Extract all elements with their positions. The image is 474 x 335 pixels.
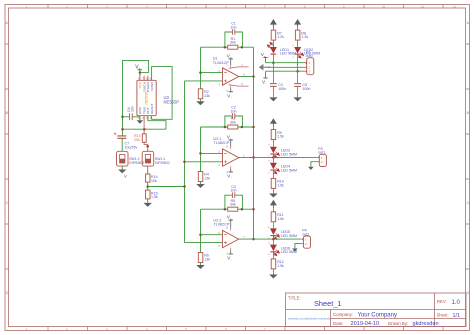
ground arrow below R2 — [196, 101, 204, 105]
ground arrow P3 — [308, 167, 314, 170]
SW1.1 label — [155, 157, 170, 165]
switch SW1.2 — [117, 151, 129, 166]
switch SW1.1 — [142, 151, 154, 166]
net flag Vs (555 supply) — [135, 65, 142, 77]
svg-text:1.2k: 1.2k — [301, 35, 308, 39]
svg-text:out1: out1 — [318, 151, 325, 155]
LED2 — [294, 47, 304, 58]
U1 offset pins — [229, 67, 249, 86]
U2.2 label — [213, 218, 230, 226]
555 pin numbers top — [138, 77, 152, 81]
C3 label — [231, 185, 237, 193]
555 pin numbers bottom — [138, 116, 152, 120]
wire R12 to ground — [272, 269, 274, 275]
svg-text:CONT: CONT — [150, 82, 154, 91]
wire R6 to ground — [200, 263, 202, 266]
frame tick marks bottom — [48, 327, 443, 331]
wire LED4 to R10 — [272, 170, 274, 178]
TITLE BLOCK — [286, 293, 467, 327]
junction U2.2 output — [252, 238, 255, 241]
svg-text:easyeda.com/gkdresden easyeda: easyeda.com/gkdresden easyeda — [288, 317, 330, 321]
svg-text:30k: 30k — [230, 203, 236, 207]
resistor R15 — [146, 190, 151, 199]
wire1 to P2 pin1 — [266, 62, 305, 64]
ground arrow 555 GND pin — [137, 118, 144, 124]
LED4 label — [281, 165, 297, 173]
C5 label — [302, 83, 310, 91]
U1 V+ stub — [230, 65, 232, 68]
svg-text:NE555P: NE555P — [145, 91, 149, 104]
op-amp U1 triangle — [223, 68, 239, 85]
svg-text:gkdresden: gkdresden — [413, 321, 439, 327]
wire divider to opamp bias rail — [148, 186, 185, 188]
svg-text:LED 5MM: LED 5MM — [281, 152, 297, 156]
R3 label — [230, 117, 236, 125]
R2 label — [204, 90, 210, 98]
wire to R11 — [272, 208, 274, 212]
R11 label — [277, 213, 284, 221]
wire SW1.1 to R14 — [147, 166, 149, 174]
title block row line 2 — [331, 318, 467, 320]
wire R15 to ground — [147, 199, 149, 203]
U2.1 label — [213, 137, 230, 145]
junction C1 left — [224, 46, 227, 49]
wire to R9 — [272, 127, 274, 130]
wire R2 to ground — [200, 99, 202, 101]
ground arrow P4 — [292, 249, 298, 252]
capacitor C5 — [294, 84, 301, 87]
svg-text:LED 5MM: LED 5MM — [281, 168, 297, 172]
wire LED5 to junction — [272, 236, 274, 240]
R5 label — [230, 199, 236, 207]
wire LED3 to junction — [272, 154, 274, 157]
junction C1 right — [241, 46, 244, 49]
wire2 to P2 pin2 — [268, 66, 305, 68]
R9 label — [277, 131, 284, 139]
R10 label — [277, 180, 284, 188]
U1 pin numbers — [218, 63, 245, 93]
svg-text:30k: 30k — [230, 121, 236, 125]
junction U2.1 feedback — [252, 126, 255, 129]
wire C7 to SW1.2 — [121, 138, 123, 151]
svg-text:TL082CP: TL082CP — [213, 141, 230, 145]
svg-text:TITLE:: TITLE: — [288, 296, 301, 301]
capacitor C3 — [232, 192, 234, 198]
wire R9 to LED3 — [272, 140, 274, 147]
wire3 to P2 pin3 — [266, 70, 305, 72]
LED pin number marks — [268, 44, 294, 256]
svg-text:-: - — [231, 95, 232, 99]
LED3 label — [281, 149, 297, 157]
junction chain A — [272, 61, 275, 64]
svg-text:100n: 100n — [278, 87, 286, 91]
svg-text:1.5k: 1.5k — [151, 195, 158, 199]
wire P4 pin2 to ground — [295, 243, 301, 248]
wire U2.2 pin3 — [185, 242, 225, 244]
junction C3 left — [224, 208, 227, 211]
U2.2 V- stub — [230, 248, 232, 251]
ground arrow bottom chain — [269, 275, 277, 279]
U3 reference label — [164, 95, 180, 105]
ground arrow below R15 — [144, 203, 152, 207]
C1 label — [231, 22, 237, 30]
svg-text:10n: 10n — [131, 106, 135, 112]
svg-text:B: B — [6, 111, 8, 115]
wire U1 feedback top — [201, 46, 254, 48]
C4 label — [278, 83, 286, 91]
svg-text:100n: 100n — [302, 87, 310, 91]
resistor R5 — [228, 207, 238, 211]
svg-text:2019-04-10: 2019-04-10 — [351, 321, 380, 327]
svg-text:Sheet_1: Sheet_1 — [314, 299, 342, 308]
ground arrow below SW1.2 — [118, 170, 127, 179]
junction mid chain — [272, 156, 275, 159]
C6 value label (rotated) — [127, 106, 135, 112]
net flag V wire1 — [261, 52, 268, 63]
C2 label — [231, 106, 237, 114]
555 pin names top row (rotated) — [138, 81, 154, 92]
555 pin stubs bottom — [140, 116, 144, 130]
svg-text:-: - — [265, 81, 266, 85]
svg-text:1.5k: 1.5k — [277, 135, 284, 139]
wire feedback rail right vertical — [253, 47, 255, 239]
wire junction to LED4 — [272, 157, 274, 162]
svg-text:V: V — [124, 174, 127, 179]
P4 label — [302, 229, 309, 237]
wire R4 to ground — [200, 182, 202, 185]
svg-text:NE555P: NE555P — [164, 100, 180, 105]
U1 +/- marks — [224, 73, 227, 83]
net flag Vs U1 — [227, 54, 233, 60]
capacitor C1 — [232, 29, 234, 35]
resistor R8 — [295, 30, 300, 40]
wire U2.2 output — [239, 238, 274, 240]
R1 label — [230, 37, 236, 45]
wire SW1.2 to ground — [121, 166, 123, 169]
wire U1 pin2 — [201, 72, 225, 74]
U2.2 pin numbers — [218, 226, 245, 255]
555 pin names bottom row (rotated) — [138, 104, 154, 114]
title block outline — [286, 293, 467, 327]
wire mid junction to P3 — [273, 156, 316, 158]
title block row line 1 — [286, 309, 467, 311]
R14 label — [151, 175, 158, 183]
junction TRIG branch — [121, 128, 124, 131]
junction U1 output — [252, 75, 255, 78]
LED5 label — [281, 230, 297, 238]
net flag V- U2.2 — [227, 254, 233, 261]
junction U2.1 output — [252, 156, 255, 159]
svg-text:13k: 13k — [204, 94, 210, 98]
wire 555 OUT path — [148, 116, 166, 130]
ground arrow below R6 — [196, 265, 204, 269]
svg-text:1.5k: 1.5k — [277, 183, 284, 187]
555 pin stubs top — [140, 73, 148, 81]
wire U2.1 pin2 — [201, 152, 225, 154]
wire C3 loop — [225, 195, 243, 209]
wire C6 leads — [123, 116, 140, 118]
svg-text:1/1: 1/1 — [453, 313, 461, 319]
frame tick marks right — [466, 44, 470, 269]
LED5 — [270, 228, 280, 239]
U1 V- stub — [230, 85, 232, 88]
svg-text:10n: 10n — [231, 109, 237, 113]
wire junction to LED6 — [272, 239, 274, 245]
junction Vs-VCC — [139, 71, 142, 74]
wire junction to C4 — [272, 63, 274, 84]
resistor R1 — [228, 45, 238, 49]
svg-text:10: 10 — [382, 5, 386, 9]
wire 555 RESET-CONT loop — [152, 67, 173, 120]
capacitor C4 — [270, 84, 277, 87]
wire bias rail vertical — [184, 81, 186, 243]
R12 label — [277, 260, 284, 268]
svg-text:11: 11 — [421, 5, 424, 9]
title block column line right — [434, 293, 436, 327]
junction C6 branch — [121, 116, 124, 119]
resistor R3 — [228, 125, 238, 129]
wire U2.2 feedback bottom — [201, 208, 254, 210]
op-amp U2.1 triangle — [223, 149, 239, 166]
junction chain B — [296, 70, 299, 73]
svg-text:-: - — [231, 257, 232, 261]
ground arrow mid chain — [269, 194, 277, 198]
U2.2 V+ stub — [230, 228, 232, 231]
frame tick marks top — [48, 5, 443, 9]
wire R11 to LED5 — [272, 222, 274, 229]
junction divider — [146, 185, 149, 188]
svg-text:TL081CP: TL081CP — [213, 61, 230, 65]
svg-text:B: B — [467, 111, 469, 115]
R8 label — [301, 31, 308, 39]
resistor R14 — [146, 174, 151, 182]
LED6 — [270, 245, 280, 256]
svg-text:10n: 10n — [231, 189, 237, 193]
capacitor C6 — [130, 113, 133, 120]
ground arrow chain B — [293, 97, 301, 101]
resistor R2 — [198, 89, 203, 99]
R4 label — [204, 173, 210, 181]
LED1 — [267, 42, 277, 54]
resistor R11 — [271, 212, 276, 222]
wire junction to C5 — [297, 71, 299, 83]
power arrow chain B — [294, 19, 301, 27]
svg-text:12: 12 — [453, 5, 457, 9]
R6 label — [204, 254, 210, 262]
ground arrow below R4 — [196, 184, 204, 188]
frame tick marks left — [5, 44, 9, 269]
connector P3 — [316, 154, 326, 166]
R7 label — [277, 31, 284, 39]
wire VCC to loop corner — [140, 72, 149, 74]
power arrow chain A — [270, 19, 277, 27]
op-amp U2.2 triangle — [223, 230, 239, 247]
LED6 label — [281, 246, 297, 254]
resistor R12 — [271, 259, 276, 269]
wire LED6 to R12 — [272, 252, 274, 259]
wire LED1 to junction — [272, 54, 274, 63]
junction U2.2 feedback — [252, 208, 255, 211]
svg-text:Sheet:: Sheet: — [437, 313, 449, 318]
svg-text:TL082CP: TL082CP — [213, 223, 230, 227]
U2.1 +/- marks — [224, 153, 227, 163]
net flag V- U2.1 — [227, 172, 233, 179]
wire U2.2 pin2 — [201, 234, 225, 236]
capacitor C7 (polarized) — [114, 133, 127, 139]
wire U2.1 pin3 — [185, 161, 225, 163]
title block column line left — [330, 310, 332, 327]
wire U2.1 output — [239, 156, 274, 158]
wire R8 to LED2 — [297, 40, 299, 47]
wire to R7 — [272, 27, 274, 30]
resistor R4 — [198, 172, 203, 182]
resistor R13 — [142, 129, 149, 151]
wire C2 loop — [225, 116, 243, 127]
power arrow mid chain — [270, 118, 277, 126]
resistor R7 — [271, 30, 276, 40]
junction U2.2 pin2 — [199, 233, 202, 236]
U1 label — [213, 57, 230, 65]
wire U2.2 fb-left vertical — [200, 209, 202, 252]
U2.2 +/- marks — [224, 235, 227, 244]
junction bottom chain — [272, 238, 275, 241]
junction C2 left — [224, 126, 227, 129]
svg-text:1.5k: 1.5k — [277, 217, 284, 221]
wire R10 to ground — [272, 188, 274, 193]
svg-text:Company:: Company: — [333, 312, 353, 317]
R15 label — [151, 191, 158, 199]
wire bottom junction to P4 — [273, 238, 300, 240]
wire to R8 — [297, 27, 299, 30]
wire U2.1 feedback bottom — [201, 126, 254, 128]
wire C4 to ground — [272, 86, 274, 97]
svg-text:20k: 20k — [134, 138, 140, 142]
LED2 label — [304, 48, 320, 56]
resistor R9 — [271, 130, 276, 140]
svg-text:1.0: 1.0 — [452, 300, 461, 306]
svg-text:10u/25v: 10u/25v — [125, 145, 138, 149]
resistor R10 — [271, 178, 276, 188]
wire U1 fb-left vertical — [200, 47, 202, 89]
P2 label — [306, 51, 313, 59]
R13 label — [134, 134, 141, 142]
U2.1 V- stub — [230, 166, 232, 169]
wire TRIG row — [123, 128, 167, 130]
wire P3 pin2 to ground — [311, 162, 317, 167]
wire U1 pin3 — [185, 80, 225, 82]
net flag V- wire3 — [262, 71, 268, 85]
svg-text:13k: 13k — [204, 177, 210, 181]
svg-text:DIPSW02: DIPSW02 — [155, 161, 170, 165]
junction bias rail divider — [183, 185, 186, 188]
IC U3 NE555P body — [137, 80, 156, 115]
junction TRIG pin — [143, 128, 146, 131]
svg-text:-: - — [231, 175, 232, 179]
LED3 — [270, 147, 280, 158]
LED1 label — [280, 48, 296, 56]
connector P4 — [300, 236, 310, 248]
svg-text:1.2k: 1.2k — [277, 35, 284, 39]
connector P2 — [304, 58, 314, 75]
svg-text:out0: out0 — [306, 54, 313, 58]
junction C2 right — [241, 126, 244, 129]
netport arrow input — [259, 64, 271, 70]
svg-text:RESET: RESET — [150, 104, 154, 114]
P3 label — [318, 147, 325, 155]
wire C5 to ground — [297, 86, 299, 97]
svg-text:30k: 30k — [230, 41, 236, 45]
svg-text:10n: 10n — [231, 25, 237, 29]
svg-text:13k: 13k — [204, 258, 210, 262]
ground arrow chain A — [269, 97, 277, 101]
power arrow bottom chain — [270, 200, 277, 208]
net flag V- U1 — [227, 92, 233, 99]
wire U2.1 fb-left vertical — [200, 127, 202, 172]
U2.1 V+ stub — [230, 146, 232, 149]
U2.1 pin numbers — [218, 145, 245, 174]
svg-text:Date:: Date: — [333, 321, 344, 326]
capacitor C2 — [232, 113, 234, 119]
wire R14 to R15 — [147, 182, 149, 190]
LED4 — [270, 163, 280, 174]
junction U1 pin2 — [199, 71, 202, 74]
wire LED2 to junction — [297, 54, 299, 71]
wire C1 loop — [225, 32, 243, 47]
wire top-left loop — [123, 60, 149, 135]
svg-text:LED 5MM: LED 5MM — [281, 234, 297, 238]
junction bias rail U2.1 — [183, 161, 186, 164]
resistor R6 — [198, 253, 203, 263]
svg-text:10k: 10k — [151, 179, 157, 183]
C7 value label — [125, 142, 138, 150]
wire U1 output — [239, 76, 254, 78]
wire R7 to LED1 — [272, 40, 274, 47]
svg-text:REV:: REV: — [437, 299, 447, 304]
net flag Vs U2.2 — [227, 215, 233, 221]
svg-text:out2: out2 — [302, 232, 309, 236]
SW1.2 label — [129, 157, 144, 165]
net flag Vs U2.1 — [227, 135, 233, 141]
junction C3 right — [241, 208, 244, 211]
svg-text:1.5k: 1.5k — [277, 264, 284, 268]
svg-text:Drawn By:: Drawn By: — [388, 321, 408, 326]
svg-text:Your Company: Your Company — [358, 313, 397, 319]
junction U2.1 pin2 — [199, 152, 202, 155]
